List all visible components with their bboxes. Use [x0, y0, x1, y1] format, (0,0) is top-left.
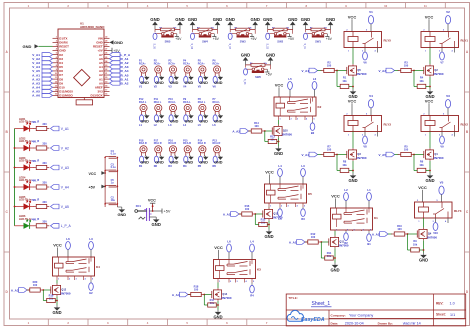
- wire relay pin stub: [447, 218, 449, 223]
- node R5 flag: [198, 156, 203, 168]
- node L5 flag: [198, 115, 203, 127]
- VCC K1: [331, 194, 340, 209]
- wire drain: [429, 132, 431, 149]
- svg-text:+5V: +5V: [213, 37, 220, 41]
- svg-text:V_A3: V_A3: [61, 166, 69, 170]
- node R3 flag: [301, 207, 306, 221]
- wire drain: [352, 48, 354, 65]
- node V9 flag: [440, 132, 445, 149]
- svg-text:+5V: +5V: [266, 72, 273, 76]
- VCC K2: [275, 83, 284, 98]
- svg-text:K5: K5: [308, 192, 312, 196]
- connector P15 RCA R: [183, 139, 191, 156]
- svg-text:16: 16: [105, 94, 107, 96]
- svg-text:100: 100: [327, 147, 332, 151]
- relay RLY3: [344, 114, 391, 137]
- svg-text:S_01: S_01: [303, 44, 305, 50]
- node V_A1: [51, 126, 70, 131]
- svg-text:Drawn By:: Drawn By:: [378, 321, 393, 325]
- svg-text:L4: L4: [250, 240, 254, 244]
- svg-text:R3: R3: [301, 217, 305, 221]
- ground: [140, 76, 149, 85]
- wire source: [217, 301, 219, 310]
- +5V flag right of U1: [110, 48, 121, 53]
- svg-text:+5V: +5V: [175, 37, 182, 41]
- svg-text:GND: GND: [425, 178, 434, 183]
- capacitor C3 0.1u: [105, 164, 117, 172]
- svg-text:VCC: VCC: [418, 185, 427, 190]
- svg-text:GND: GND: [140, 81, 149, 85]
- svg-text:GND: GND: [214, 81, 223, 85]
- connector P14 RCA R: [198, 139, 206, 156]
- capacitor C4 0.1u: [105, 150, 117, 158]
- svg-text:GND: GND: [419, 258, 428, 263]
- connector DC1 power jack: [135, 204, 152, 221]
- svg-text:+5V: +5V: [251, 37, 258, 41]
- VCC tap on capacitor bank: [89, 171, 106, 176]
- svg-text:GND: GND: [326, 17, 335, 22]
- node A_A2 flag: [372, 232, 388, 237]
- node V_A5 flag: [378, 152, 394, 157]
- node L6 flag: [213, 115, 218, 127]
- svg-text:agg_R: agg_R: [32, 218, 40, 221]
- node L1 flag: [367, 188, 372, 208]
- resistor R20 100: [27, 280, 44, 292]
- svg-text:GND: GND: [199, 161, 208, 165]
- svg-text:RCA+: RCA+: [154, 62, 161, 65]
- svg-text:A_A4: A_A4: [172, 293, 180, 297]
- svg-text:L6: L6: [227, 240, 231, 244]
- node L4 flag: [250, 240, 255, 260]
- svg-text:27: 27: [105, 49, 107, 51]
- svg-text:20: 20: [105, 77, 107, 79]
- wire relay pin stub: [377, 48, 379, 53]
- node B1 flag: [367, 231, 372, 246]
- svg-text:26: 26: [105, 53, 107, 55]
- svg-text:V8: V8: [363, 145, 367, 149]
- wire gate: [407, 233, 418, 235]
- svg-text:10k: 10k: [419, 79, 424, 83]
- svg-text:GND: GND: [185, 161, 194, 165]
- svg-text:V2: V2: [446, 10, 450, 14]
- svg-text:GND: GND: [114, 40, 123, 45]
- svg-text:RCA R: RCA R: [183, 142, 191, 145]
- svg-text:3: 3: [56, 45, 57, 47]
- VCC RLY2: [425, 98, 434, 115]
- resistor R13 10k: [265, 131, 279, 144]
- svg-text:0.1u: 0.1u: [111, 153, 116, 156]
- svg-text:GND: GND: [23, 44, 32, 49]
- svg-text:VCC: VCC: [425, 98, 434, 103]
- svg-text:25: 25: [105, 57, 107, 59]
- node L3 flag: [89, 237, 94, 257]
- svg-text:B1: B1: [367, 242, 371, 246]
- svg-text:A_A1: A_A1: [289, 241, 297, 245]
- svg-text:V1: V1: [369, 10, 373, 14]
- ground: [419, 253, 428, 263]
- svg-text:R1: R1: [139, 164, 143, 168]
- svg-text:RLY2: RLY2: [461, 122, 469, 126]
- node L2 flag: [312, 77, 317, 97]
- ground: [425, 173, 434, 183]
- svg-text:S_04: S_04: [190, 44, 192, 50]
- ground: [264, 229, 273, 239]
- resistor R7 100: [318, 144, 338, 156]
- wire drain: [334, 231, 336, 236]
- ground: [170, 156, 179, 165]
- svg-text:V_A4: V_A4: [61, 185, 69, 189]
- svg-text:2: 2: [56, 40, 57, 42]
- svg-text:VCC: VCC: [275, 83, 284, 88]
- wire drain: [429, 48, 431, 65]
- svg-text:R2: R2: [154, 164, 158, 168]
- resistor R1 10k: [337, 71, 353, 89]
- transistor Q3 2N7000: [347, 148, 367, 161]
- resistor R10 100: [388, 224, 408, 236]
- node V5 flag: [439, 180, 444, 202]
- wire gate: [264, 130, 272, 132]
- svg-text:Sheet_1: Sheet_1: [312, 301, 331, 307]
- svg-text:RCA L: RCA L: [139, 101, 147, 104]
- connector P1 RCA+: [139, 60, 147, 77]
- svg-text:GND: GND: [241, 52, 250, 57]
- wire source: [429, 77, 431, 89]
- ground: [140, 114, 149, 123]
- connector P13 RCA R: [213, 139, 221, 156]
- svg-text:A_A3: A_A3: [11, 289, 19, 293]
- net flags right of U1: [110, 53, 131, 86]
- svg-text:VCC: VCC: [53, 243, 62, 248]
- wire source: [278, 138, 280, 147]
- node R6 flag: [213, 156, 218, 168]
- ground: [199, 114, 208, 123]
- svg-text:22: 22: [105, 69, 107, 71]
- svg-text:GND: GND: [348, 178, 357, 183]
- svg-text:GND: GND: [199, 119, 208, 123]
- svg-text:K2: K2: [318, 105, 322, 109]
- svg-text:R3: R3: [168, 164, 172, 168]
- svg-text:GND: GND: [214, 119, 223, 123]
- connector P4 RCA+: [183, 60, 191, 77]
- svg-text:D12/MISO: D12/MISO: [59, 94, 73, 98]
- relay K3: [214, 260, 262, 283]
- svg-text:vlad.mir 14: vlad.mir 14: [403, 322, 421, 326]
- wire relay pin stub: [454, 48, 456, 53]
- switch SW5: [150, 17, 184, 50]
- svg-text:A_A2: A_A2: [372, 233, 380, 237]
- svg-text:10k: 10k: [342, 163, 347, 167]
- svg-text:RLY1: RLY1: [461, 38, 469, 42]
- svg-text:GND: GND: [140, 161, 149, 165]
- node V_A3: [51, 165, 70, 170]
- node A_A4 flag: [172, 292, 188, 297]
- transistor Q11 2N7000: [329, 236, 349, 249]
- ground: [425, 89, 434, 99]
- resistor R14 100: [248, 121, 265, 133]
- connector P12 RCA L: [139, 98, 147, 115]
- wire source: [423, 241, 425, 253]
- resistor R22 330: [34, 142, 50, 150]
- svg-text:REV:: REV:: [436, 302, 443, 306]
- svg-text:RCA R: RCA R: [168, 142, 176, 145]
- svg-text:0.1u: 0.1u: [111, 166, 116, 169]
- svg-text:9: 9: [56, 69, 57, 71]
- VCC RLY4: [418, 185, 427, 202]
- connector P11 RCA L: [154, 98, 162, 115]
- wire source: [268, 221, 270, 230]
- relay K1: [331, 208, 379, 231]
- switch SW3: [225, 17, 259, 50]
- relay K4: [53, 257, 101, 280]
- transistor Q14 2N7000: [212, 288, 232, 301]
- svg-text:30: 30: [105, 36, 107, 38]
- resistor R11 10k: [321, 242, 335, 260]
- node L3 flag: [168, 115, 173, 127]
- wire drain: [268, 206, 270, 209]
- svg-text:GND: GND: [214, 161, 223, 165]
- svg-text:GND: GND: [117, 212, 126, 217]
- wire source: [334, 249, 336, 263]
- svg-text:+5V: +5V: [89, 185, 96, 189]
- svg-text:2N7000: 2N7000: [433, 156, 444, 160]
- ground: [214, 114, 223, 123]
- svg-text:V3: V3: [446, 94, 450, 98]
- svg-text:2N7000: 2N7000: [356, 72, 367, 76]
- svg-text:19: 19: [105, 81, 107, 83]
- svg-text:GND: GND: [250, 17, 259, 22]
- svg-text:RCA+: RCA+: [139, 62, 146, 65]
- svg-text:R4: R4: [250, 294, 254, 298]
- svg-text:A_A5: A_A5: [223, 213, 231, 217]
- svg-text:28: 28: [105, 45, 107, 47]
- node V_A4: [51, 185, 70, 190]
- +5V at DC1: [162, 209, 171, 214]
- svg-text:K1: K1: [374, 216, 378, 220]
- svg-text:agg_R: agg_R: [32, 179, 40, 182]
- U1 body: [58, 29, 104, 105]
- svg-text:GND: GND: [140, 119, 149, 123]
- svg-text:R6: R6: [213, 164, 217, 168]
- svg-text:GND: GND: [213, 17, 222, 22]
- node R1 flag: [139, 156, 144, 168]
- svg-text:11: 11: [424, 4, 427, 8]
- svg-text:V10: V10: [433, 231, 438, 235]
- transistor Q5 2N7000: [347, 64, 367, 77]
- wire source: [352, 161, 354, 173]
- node V6 flag: [213, 76, 218, 88]
- svg-text:330: 330: [42, 161, 47, 165]
- svg-text:VCC: VCC: [214, 245, 223, 250]
- svg-text:L_P_A: L_P_A: [61, 224, 72, 228]
- resistor R26 330: [34, 219, 50, 228]
- ground flag left of U1: [23, 44, 53, 49]
- svg-text:V9: V9: [440, 145, 444, 149]
- wire capacitor bank rails: [104, 157, 118, 207]
- ground: [155, 156, 164, 165]
- svg-text:100: 100: [33, 283, 38, 287]
- svg-text:1u: 1u: [111, 182, 114, 185]
- svg-text:D13/SCK: D13/SCK: [90, 94, 103, 98]
- svg-text:+5V: +5V: [288, 37, 295, 41]
- svg-text:VCC: VCC: [331, 194, 340, 199]
- ground: [155, 76, 164, 85]
- svg-text:18: 18: [105, 85, 107, 87]
- svg-text:2N7000: 2N7000: [60, 292, 71, 296]
- svg-text:GND: GND: [170, 81, 179, 85]
- svg-text:S_06: S_06: [243, 79, 245, 85]
- ground capacitor bank: [117, 207, 126, 217]
- resistor R5 100: [395, 144, 415, 156]
- resistor R8 10k: [337, 155, 353, 173]
- wire gate: [42, 289, 50, 291]
- node V_A4 flag: [301, 152, 317, 157]
- svg-text:V4: V4: [369, 94, 373, 98]
- svg-text:E2: E2: [89, 291, 93, 295]
- VCC K4: [53, 243, 62, 258]
- svg-text:RCA+: RCA+: [183, 62, 190, 65]
- svg-text:100: 100: [404, 63, 409, 67]
- svg-text:V6: V6: [363, 61, 367, 65]
- node R4 flag: [183, 156, 188, 168]
- svg-text:100: 100: [404, 147, 409, 151]
- svg-text:2N7000: 2N7000: [338, 244, 349, 248]
- node L2 flag: [154, 115, 159, 127]
- connector P6 RCA+: [213, 60, 221, 77]
- node V_A3 flag: [378, 68, 394, 73]
- VCC K5: [265, 170, 274, 185]
- resistor R18 100: [188, 284, 205, 296]
- svg-text:L4: L4: [278, 164, 282, 168]
- svg-text:GND: GND: [274, 151, 283, 156]
- svg-text:RCA+: RCA+: [168, 62, 175, 65]
- relay RLY2: [421, 114, 468, 137]
- svg-text:VCC: VCC: [265, 170, 274, 175]
- svg-text:L6: L6: [66, 237, 70, 241]
- svg-text:V5: V5: [440, 180, 444, 184]
- svg-text:330: 330: [42, 122, 47, 126]
- svg-text:A_A2: A_A2: [232, 130, 240, 134]
- svg-text:SW3: SW3: [240, 40, 246, 44]
- node A_A1 flag: [289, 240, 305, 245]
- ground: [140, 156, 149, 165]
- capacitor C5 1u: [105, 179, 117, 187]
- svg-text:V_A5: V_A5: [61, 205, 69, 209]
- svg-text:15: 15: [55, 94, 57, 96]
- svg-text:V3: V3: [168, 84, 172, 88]
- svg-text:Company:: Company:: [331, 313, 346, 317]
- connector P10 RCA L: [168, 98, 176, 115]
- wire drain: [56, 280, 58, 284]
- svg-text:SW6: SW6: [255, 75, 261, 79]
- node V_A5: [51, 204, 70, 209]
- svg-text:2N7000: 2N7000: [272, 216, 283, 220]
- relay K2: [274, 97, 322, 120]
- svg-text:B2: B2: [311, 131, 315, 135]
- svg-text:GND: GND: [175, 17, 184, 22]
- node V3 flag: [168, 76, 173, 88]
- wire relay pin stub: [377, 132, 379, 137]
- svg-text:GND: GND: [185, 119, 194, 123]
- VCC RLY5: [348, 14, 357, 31]
- node L3 flag: [301, 164, 306, 184]
- ground: [274, 146, 283, 156]
- svg-text:GND: GND: [170, 119, 179, 123]
- svg-text:SW5: SW5: [165, 40, 171, 44]
- svg-text:2N7000: 2N7000: [356, 156, 367, 160]
- svg-text:VCC: VCC: [348, 98, 357, 103]
- svg-text:RCA L: RCA L: [198, 101, 206, 104]
- svg-text:V_A3: V_A3: [378, 69, 386, 73]
- svg-text:L5: L5: [288, 77, 292, 81]
- svg-text:10k: 10k: [419, 163, 424, 167]
- connector P18 RCA R: [139, 139, 147, 156]
- svg-text:10: 10: [55, 73, 57, 75]
- svg-text:SW2: SW2: [277, 40, 283, 44]
- node V_A1 flag: [301, 68, 317, 73]
- svg-text:29: 29: [105, 40, 107, 42]
- node R2 flag: [344, 231, 349, 245]
- connector P8 RCA L: [198, 98, 206, 115]
- switch SW1: [301, 17, 335, 50]
- svg-text:EasyEDA: EasyEDA: [301, 317, 325, 323]
- switch SW2: [263, 17, 297, 50]
- node B2 flag: [310, 120, 315, 135]
- node A_A2 flag: [232, 129, 248, 134]
- transistor Q1 2N7000: [424, 148, 444, 161]
- title block: [286, 294, 466, 326]
- svg-text:GND: GND: [330, 268, 339, 273]
- svg-text:2N7000: 2N7000: [282, 133, 293, 137]
- svg-text:L2: L2: [313, 77, 317, 81]
- node L2 flag: [344, 188, 349, 208]
- resistor R23 330: [34, 161, 50, 169]
- svg-text:10k: 10k: [413, 242, 418, 246]
- wire gate: [336, 154, 347, 156]
- resistor R3 100: [395, 60, 415, 72]
- node V4 flag: [368, 94, 373, 116]
- node L5 flag: [288, 77, 293, 97]
- wire source: [56, 297, 58, 306]
- svg-text:1: 1: [56, 36, 57, 38]
- svg-text:L1: L1: [367, 188, 371, 192]
- node E2 flag: [89, 280, 94, 295]
- ground flag right of U1: [110, 40, 124, 45]
- svg-text:RCA L: RCA L: [183, 101, 191, 104]
- capacitor C2 10u: [105, 197, 117, 205]
- rev cell: [436, 302, 455, 306]
- svg-text:100: 100: [311, 235, 316, 239]
- svg-text:21: 21: [105, 73, 107, 75]
- wire drain: [278, 120, 280, 125]
- resistor R19 10k: [43, 290, 57, 303]
- node L6 flag: [66, 237, 71, 257]
- connector P3 RCA+: [168, 60, 176, 77]
- svg-text:100: 100: [194, 287, 199, 291]
- date cell: [331, 321, 364, 325]
- ground: [330, 263, 339, 273]
- node L1 flag: [139, 115, 144, 127]
- relay RLY4: [415, 200, 462, 223]
- svg-text:330: 330: [42, 181, 47, 185]
- svg-text:12: 12: [55, 81, 57, 83]
- VCC RLY3: [348, 98, 357, 115]
- svg-text:8: 8: [56, 65, 57, 67]
- wire gate: [336, 70, 347, 72]
- DC1 switch pin: [139, 217, 146, 219]
- svg-text:V_A1: V_A1: [301, 69, 309, 73]
- ground: [348, 173, 357, 183]
- wire drain: [217, 283, 219, 289]
